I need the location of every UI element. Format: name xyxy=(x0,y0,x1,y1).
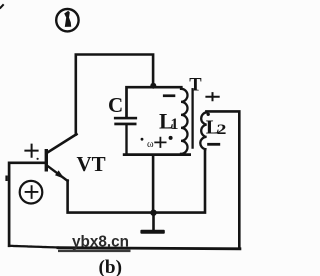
svg-text:(b): (b) xyxy=(99,257,123,276)
svg-text:ω: ω xyxy=(147,139,154,150)
svg-text:2: 2 xyxy=(217,122,227,138)
svg-text:C: C xyxy=(108,93,123,117)
svg-text:T: T xyxy=(189,76,202,96)
svg-text:1: 1 xyxy=(171,116,179,133)
svg-text:VT: VT xyxy=(77,152,106,176)
svg-text:ybx8.cn: ybx8.cn xyxy=(72,234,129,251)
